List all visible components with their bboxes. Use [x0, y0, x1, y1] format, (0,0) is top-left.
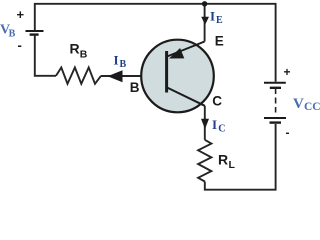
svg-text:I: I — [210, 8, 215, 23]
wire from RL to bottom rail to VCC — [205, 124, 276, 190]
resistor RL zigzag — [198, 140, 211, 182]
svg-text:R: R — [70, 41, 80, 57]
wire top rail with left drop to VB battery and right drop to VCC battery — [35, 4, 276, 82]
svg-text:CC: CC — [304, 101, 320, 113]
battery VCC cell1 positive plate — [264, 82, 286, 84]
svg-text:B: B — [130, 80, 140, 95]
svg-text:-: - — [18, 38, 22, 53]
svg-text:B: B — [9, 29, 16, 40]
battery VCC dashed link dash 1 — [275, 98, 277, 104]
svg-text:C: C — [212, 94, 222, 109]
arrowhead IC pointing down — [201, 119, 209, 129]
svg-text:B: B — [80, 49, 88, 61]
svg-text:E: E — [215, 34, 224, 49]
wire from RB to transistor base — [101, 75, 166, 77]
battery VCC cell1 negative plate — [270, 87, 281, 89]
wire emitter vertical to top rail — [204, 4, 206, 42]
svg-text:R: R — [218, 151, 228, 167]
transistor collector diagonal line — [167, 88, 205, 106]
battery VB positive plate — [26, 30, 44, 32]
battery VB negative plate — [30, 33, 39, 35]
svg-text:L: L — [229, 159, 236, 171]
battery VCC dashed link dash 2 — [275, 107, 277, 113]
svg-text:E: E — [216, 15, 223, 26]
svg-text:I: I — [212, 117, 217, 132]
junction dot on top rail — [202, 1, 207, 6]
wire from VB down and right to RB — [35, 36, 56, 76]
svg-text:V: V — [293, 96, 304, 112]
battery VCC cell2 positive plate — [264, 117, 286, 119]
battery VCC stem below negative plate — [275, 89, 277, 95]
svg-text:C: C — [218, 124, 225, 135]
svg-text:+: + — [17, 7, 25, 22]
transistor base bar — [165, 51, 168, 93]
svg-text:+: + — [284, 65, 291, 79]
resistor RB zigzag — [56, 68, 101, 84]
transistor emitter diagonal line — [167, 42, 205, 57]
svg-text:B: B — [120, 59, 127, 70]
transistor Q1 PNP circle body — [141, 40, 214, 113]
svg-text:I: I — [114, 53, 119, 68]
wire collector vertical down to RL — [204, 106, 206, 140]
svg-text:-: - — [286, 126, 290, 140]
battery VCC cell2 negative plate — [270, 121, 282, 123]
arrowhead IB pointing left — [108, 70, 123, 82]
transistor emitter arrowhead pointing into base (PNP) — [169, 48, 184, 59]
arrowhead IE pointing down — [201, 17, 209, 25]
